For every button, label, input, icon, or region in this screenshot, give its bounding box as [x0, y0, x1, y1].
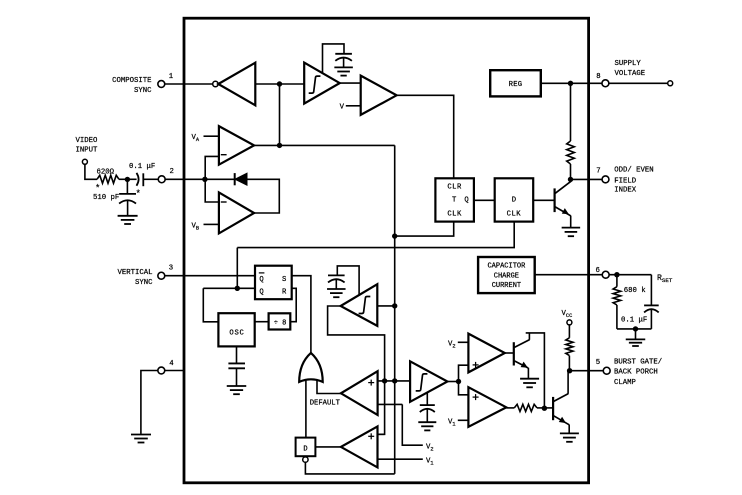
capacitor C6: [420, 404, 435, 406]
svg-text:V: V: [340, 104, 345, 112]
svg-text:8: 8: [596, 73, 600, 81]
wire FF1 clock to composite net: [395, 222, 454, 237]
wire U3 output: [447, 381, 458, 383]
schmitt trigger U1: [304, 63, 340, 104]
wire node to capacitor C1: [127, 178, 136, 180]
comparator A3 VB: [219, 192, 254, 233]
svg-text:REG: REG: [509, 81, 523, 89]
pin 8 pad: [602, 80, 609, 87]
wire U2 feedback to capacitor C5: [337, 266, 359, 296]
wire Q1 collector to Q2b base node: [526, 333, 545, 408]
wire R3 to pin5 node: [568, 356, 570, 371]
svg-text:S: S: [282, 276, 286, 284]
pin 5 pad: [603, 367, 610, 374]
capacitor C1 0.1uF coupling: [137, 173, 139, 186]
wire V input to B1: [346, 105, 361, 107]
wire C7 to bottom rail: [650, 310, 652, 329]
node V2 rail at plus row: [382, 378, 387, 383]
wire OSC to capacitor C4: [236, 346, 238, 363]
svg-text:CURRENT: CURRENT: [492, 282, 521, 290]
node video RC junction: [125, 177, 130, 182]
buffer B3: [468, 387, 506, 427]
svg-text:D: D: [303, 445, 307, 453]
wire pin2 into IC to node: [165, 178, 205, 180]
wire B2 to transistor Q1 base: [505, 352, 514, 354]
wire pin8 to supply terminal: [609, 82, 668, 84]
svg-text:DEFAULT: DEFAULT: [310, 400, 341, 408]
node RSET top: [614, 272, 619, 277]
svg-text:÷ 8: ÷ 8: [274, 320, 287, 328]
wire U3 below to capacitor C6: [426, 393, 428, 405]
wire R5 to pin 7 node: [570, 164, 572, 179]
RS flip-flop FF3: [255, 266, 292, 300]
wire clock bus to FF2 clock: [237, 222, 514, 248]
wire A3 noninverting bracket: [205, 179, 219, 202]
svg-text:0.1 μF: 0.1 μF: [621, 317, 647, 325]
node supply: [568, 81, 573, 86]
OR gate G1: [299, 353, 323, 382]
svg-text:3: 3: [169, 265, 173, 273]
capacitor C4: [228, 362, 245, 364]
ground at RSET: [626, 338, 646, 340]
resistor R4 680k: [613, 287, 621, 305]
wire block to pin 6 pad: [535, 274, 603, 276]
comparator A4 DEFAULT: [341, 371, 378, 415]
svg-text:BURST GATE/: BURST GATE/: [614, 359, 662, 367]
wire composite net vertical: [394, 145, 396, 474]
node Q2b base: [542, 406, 547, 411]
svg-text:0.1 μF: 0.1 μF: [129, 163, 155, 171]
wire plus row to schmitt U3: [378, 380, 411, 382]
wire U1 feedback to capacitor C2: [323, 44, 345, 74]
wire pin4 to IC: [165, 370, 184, 372]
wire RSET cap branch: [650, 275, 652, 306]
svg-text:R: R: [282, 288, 287, 296]
IC boundary box: [184, 18, 589, 483]
svg-text:5: 5: [596, 359, 600, 367]
wire RSET bottom rail: [617, 328, 652, 330]
svg-text:T: T: [452, 196, 457, 204]
svg-text:ODD/ EVEN: ODD/ EVEN: [614, 166, 653, 174]
buffer B1: [361, 76, 397, 115]
flip-flop FF2: [495, 178, 534, 221]
video input terminal: [82, 159, 87, 164]
svg-text:SUPPLY: SUPPLY: [615, 60, 642, 68]
ground at C6: [418, 421, 436, 423]
pin 3 pad: [158, 272, 165, 279]
node inverter output: [277, 81, 282, 86]
wire R input from divider: [290, 288, 296, 321]
ground at C4: [227, 385, 247, 387]
inverter A1: [218, 63, 255, 106]
wire S input from OR gate: [292, 276, 311, 353]
node composite net at plus row: [392, 378, 397, 383]
wire A5 upper input from V2 rail: [378, 433, 385, 435]
wire R1 to node: [119, 178, 125, 180]
wire Q output left: [203, 287, 255, 289]
wire C3 to ground: [127, 200, 129, 215]
wire OSC to divider: [255, 321, 269, 323]
svg-text:INPUT: INPUT: [76, 147, 99, 155]
node A2 output: [277, 143, 282, 148]
ground at pin 4: [131, 434, 151, 436]
wire U3 output to buffer B3: [459, 382, 469, 395]
wire Q node up to clock bus: [236, 248, 238, 289]
svg-text:OSC: OSC: [229, 329, 244, 337]
transistor Q1: [513, 342, 515, 365]
wire U3 output to buffer B2: [459, 365, 469, 381]
wire supply node to resistor R5: [570, 83, 572, 141]
wire node to pin 5 pad: [570, 370, 604, 372]
wire VCC to resistor R3: [568, 325, 570, 338]
wire VA ref to comparator A2: [204, 135, 219, 137]
svg-text:Q: Q: [259, 288, 263, 296]
wire C4 to ground: [236, 368, 238, 385]
flip-flop FF1: [435, 178, 474, 221]
node RSET bottom: [633, 326, 638, 331]
wire B1 output to flip-flop FF1 clock: [397, 95, 454, 178]
wire A5 lower input V1: [378, 458, 423, 460]
wire REG to pin 8 pad: [541, 82, 602, 84]
capacitor charge current block: [478, 257, 535, 293]
wire node to resistor R4: [616, 275, 618, 287]
node composite net at FF1 clock: [392, 233, 397, 238]
capacitor C2: [335, 53, 352, 55]
wire R4 to bottom rail: [616, 305, 618, 329]
wire C2 to ground: [343, 58, 345, 67]
wire OR gate left input to D latch: [305, 379, 307, 438]
pin 2 pad: [158, 176, 165, 183]
svg-text:Q: Q: [259, 276, 263, 284]
svg-text:680 k: 680 k: [624, 287, 647, 295]
wire pin4 to ground: [141, 371, 158, 434]
wire A1 output to schmitt U1: [255, 83, 304, 85]
D latch: [296, 438, 316, 457]
wire Q2 emitter: [555, 207, 571, 216]
inverter A1 bubble: [213, 81, 218, 86]
svg-text:D: D: [512, 196, 516, 204]
wire A4 lower input to V2 tap: [378, 403, 403, 405]
wire node down to VA output row: [279, 84, 281, 145]
node pin2 signal: [202, 177, 207, 182]
node pin 5: [567, 368, 572, 373]
svg-text:*: *: [136, 189, 141, 199]
wire V2 ref to B2: [458, 341, 469, 343]
wire pin6 to RSET network: [609, 274, 651, 276]
wire A5 output to D latch: [315, 446, 341, 448]
diode D1: [234, 173, 236, 185]
wire D1 to VB output loop: [247, 179, 279, 213]
wire pin3 to RS flip-flop: [165, 275, 255, 277]
capacitor C3 510pF: [119, 193, 136, 195]
svg-text:SYNC: SYNC: [134, 87, 152, 95]
wire pin1 to inverter A1: [165, 83, 213, 85]
comparator A2 VA: [219, 126, 254, 165]
wire A2 inverting input bracket: [205, 156, 219, 179]
svg-text:VERTICAL: VERTICAL: [117, 269, 152, 277]
wire Q1 emitter: [514, 361, 528, 368]
svg-text:BACK PORCH: BACK PORCH: [614, 369, 658, 377]
capacitor C5: [328, 274, 345, 276]
wire composite net to U2 input: [377, 305, 394, 307]
wire node to pin 7 pad: [571, 178, 603, 180]
wire OR gate right input from comparator A4: [317, 379, 341, 394]
ground at Q2 emitter: [562, 227, 581, 229]
ground at C5: [327, 288, 346, 290]
pin 7 pad: [602, 176, 609, 183]
supply terminal: [668, 81, 673, 86]
svg-text:COMPOSITE: COMPOSITE: [112, 77, 151, 85]
svg-text:2: 2: [170, 168, 174, 176]
wire U2 output to V2 rail: [328, 306, 385, 434]
schmitt trigger U2: [341, 284, 378, 326]
oscillator OSC: [218, 313, 254, 346]
pin 1 pad: [158, 81, 165, 88]
svg-text:Q: Q: [464, 196, 468, 204]
svg-text:1: 1: [169, 73, 174, 81]
wire node down to C3: [126, 179, 128, 194]
wire V2 tap down to label: [402, 404, 423, 445]
wire node to diode D1: [205, 178, 235, 180]
svg-text:CLAMP: CLAMP: [614, 379, 636, 387]
wire B3 to resistor R2: [506, 407, 514, 409]
wire D latch bubble to composite net: [305, 462, 394, 474]
ground at Q2b emitter: [560, 432, 579, 434]
transistor Q2b: [552, 397, 554, 420]
wire FF2 to transistor Q2 base: [533, 199, 554, 201]
VCC terminal: [567, 320, 572, 325]
ground at C3: [118, 215, 138, 217]
pin 4 pad: [158, 367, 165, 374]
node Q output: [235, 286, 240, 291]
ground at C2: [334, 66, 353, 68]
wire C6 to ground: [426, 409, 428, 422]
wire bottom rail to ground: [635, 329, 637, 339]
capacitor C7 0.1uF: [644, 304, 659, 306]
resistor R2: [514, 404, 537, 411]
resistor R5: [567, 141, 575, 164]
buffer B2: [468, 334, 504, 373]
svg-text:CAPACITOR: CAPACITOR: [487, 262, 526, 270]
wire U1 to buffer B1: [340, 82, 361, 84]
svg-text:VIDEO: VIDEO: [76, 137, 99, 145]
svg-text:4: 4: [169, 360, 174, 368]
pin 6 pad: [602, 271, 609, 278]
node U3 output: [456, 379, 461, 384]
svg-text:CLK: CLK: [507, 211, 522, 219]
svg-text:CHARGE: CHARGE: [494, 272, 519, 280]
resistor R3: [566, 338, 573, 356]
svg-text:INDEX: INDEX: [614, 187, 637, 195]
wire VB ref to A3: [204, 223, 219, 225]
wire FF1 Q to FF2 D: [474, 199, 495, 201]
wire V1 ref to B3: [458, 419, 469, 421]
ground at Q1 emitter: [520, 378, 539, 380]
svg-text:CLK: CLK: [447, 211, 462, 219]
divider by 8: [269, 313, 291, 329]
wire R2 to Q2b base: [537, 407, 553, 409]
svg-text:6: 6: [596, 267, 600, 275]
wire C1 to pin 2 pad: [143, 178, 158, 180]
wire Q to OSC bracket: [203, 288, 219, 322]
wire Q2b emitter: [554, 416, 569, 425]
svg-text:*: *: [95, 184, 100, 194]
svg-text:510 pF: 510 pF: [93, 194, 119, 202]
D latch output bubble: [303, 457, 308, 462]
resistor R1 620 ohm: [97, 175, 119, 183]
comparator A5: [341, 426, 378, 467]
voltage regulator REG: [490, 70, 541, 96]
node pin 7: [568, 177, 573, 182]
wire input terminal to resistor R1: [85, 165, 97, 180]
svg-text:VOLTAGE: VOLTAGE: [615, 70, 646, 78]
schmitt trigger U3: [410, 361, 447, 402]
svg-text:FIELD: FIELD: [614, 178, 637, 186]
svg-text:CLR: CLR: [447, 184, 462, 192]
node composite net at U2: [392, 303, 397, 308]
wire A2 output row: [254, 144, 395, 146]
transistor Q2: [553, 188, 555, 212]
wire C5 to ground: [335, 280, 337, 289]
svg-text:7: 7: [596, 167, 600, 175]
svg-text:SYNC: SYNC: [135, 279, 153, 287]
